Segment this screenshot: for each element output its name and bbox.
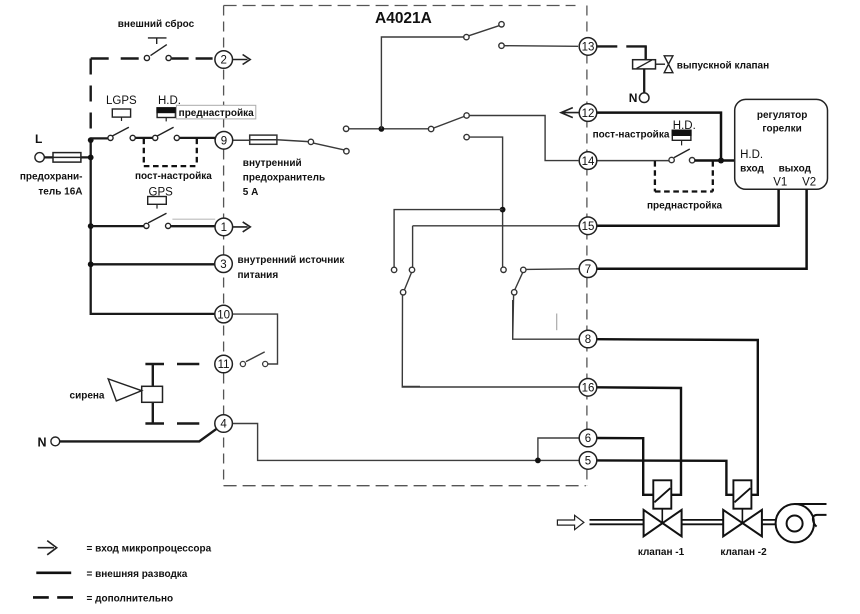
blower outlet duct top bbox=[795, 503, 827, 505]
switch blade LGPS bbox=[112, 127, 129, 136]
wire node up and right to flame switch bbox=[381, 37, 464, 129]
terminal 11 bbox=[215, 355, 233, 373]
junction bus / L fuse bbox=[88, 155, 94, 161]
wire dashed bus vertical optional part bbox=[89, 59, 91, 141]
svg-text:LGPS: LGPS bbox=[106, 95, 137, 107]
terminal N right circle bbox=[639, 93, 649, 103]
valve1 stem bbox=[661, 509, 663, 523]
svg-text:11: 11 bbox=[218, 359, 230, 371]
legend solid line symbol bbox=[36, 571, 71, 574]
wire right pair right contact to terminal 7 bbox=[526, 268, 579, 271]
stray gray line above terminal 1 wire bbox=[172, 218, 215, 220]
terminal 8 bbox=[579, 330, 597, 348]
junction bus / reset row bbox=[88, 137, 94, 143]
A4021A dashed enclosure bottom border bbox=[224, 485, 586, 487]
svg-text:предохрани-: предохрани- bbox=[20, 172, 83, 183]
wire left pair common down to terminal 16 bbox=[402, 295, 579, 387]
svg-text:12: 12 bbox=[582, 108, 595, 120]
svg-text:выход: выход bbox=[779, 164, 812, 175]
valve2 body (bowtie) bbox=[723, 510, 742, 536]
svg-text:сирена: сирена bbox=[70, 391, 105, 402]
LGPS sensor box bbox=[112, 109, 130, 117]
svg-text:L: L bbox=[35, 132, 42, 146]
svg-text:3: 3 bbox=[220, 259, 226, 271]
arrow output terminal 12 bbox=[561, 108, 579, 118]
contact circle reset left bbox=[144, 55, 149, 60]
switch blade 11 bbox=[246, 352, 265, 362]
legend dashed line symbol bbox=[33, 596, 73, 599]
terminal 2 bbox=[215, 51, 233, 69]
H.D. box tie bbox=[165, 118, 167, 122]
left pair blade (closed) bbox=[404, 273, 411, 291]
svg-text:14: 14 bbox=[582, 156, 595, 168]
wire terminal 14 to H.D. switch bbox=[597, 160, 669, 162]
wire terminal 6 stub and junction to 5 row bbox=[538, 438, 579, 460]
wire GPS row from bus bbox=[91, 225, 144, 227]
terminal N circle bbox=[51, 437, 60, 446]
GPS sensor box bbox=[148, 197, 167, 205]
valve2 stem bbox=[741, 509, 743, 523]
contact circles left pair bbox=[391, 267, 396, 272]
junction bus / GPS row bbox=[88, 223, 94, 229]
wire right pair common down to terminal 8 bbox=[513, 295, 580, 340]
gas pipe double line bbox=[590, 520, 777, 524]
terminal 7 bbox=[579, 260, 597, 278]
wire fuse to internal switch bbox=[277, 140, 309, 142]
switch blade H.D. bbox=[157, 127, 173, 136]
wire terminal 3 row bbox=[91, 263, 215, 265]
terminal 1 bbox=[215, 218, 233, 236]
wire between LGPS and HD switches bbox=[135, 137, 153, 139]
A4021A dashed enclosure left border (terminal column line) bbox=[223, 6, 225, 486]
terminal L circle bbox=[35, 153, 44, 162]
wire dashed from bus corner to reset switch bbox=[91, 57, 144, 59]
wire coil to valve symbol bbox=[656, 63, 666, 65]
svg-text:клапан -1: клапан -1 bbox=[638, 547, 685, 558]
wire terminal 8 to valve2 coil right bbox=[597, 339, 758, 495]
valve1 coil box bbox=[653, 480, 671, 508]
terminal 6 bbox=[579, 429, 597, 447]
svg-text:V2: V2 bbox=[802, 176, 816, 188]
wire N to terminal 4 bbox=[60, 429, 217, 442]
svg-text:5 А: 5 А bbox=[243, 187, 259, 198]
svg-text:пост-настройка: пост-настройка bbox=[593, 130, 670, 141]
blower outer circle bbox=[776, 504, 814, 542]
wire terminal 12 to regulator input bbox=[597, 113, 721, 161]
internal fuse 5A body bbox=[250, 135, 277, 144]
wire terminal 5 to valve2 coil left bbox=[597, 460, 734, 494]
blower outlet duct bottom with volute hook bbox=[813, 515, 827, 527]
switch blade top (open, to 13) bbox=[469, 26, 500, 36]
svg-text:5: 5 bbox=[585, 456, 591, 468]
contact circles switch 11 bbox=[240, 361, 245, 366]
wire top switch to terminal 13 bbox=[504, 45, 578, 48]
svg-text:внутренний: внутренний bbox=[243, 158, 302, 169]
wire terminal 6 to valve1 coil left bbox=[597, 438, 654, 495]
valve2 coil box bbox=[733, 480, 751, 508]
switch blade (external reset) bbox=[151, 45, 167, 56]
wire dashed terminal 13 to exhaust valve coil bbox=[597, 45, 647, 47]
svg-text:преднастройка: преднастройка bbox=[179, 108, 254, 119]
wire H.D. switch to regulator H.D. input bbox=[695, 159, 735, 162]
coil diagonal bbox=[637, 60, 652, 68]
svg-text:= дополнительно: = дополнительно bbox=[87, 593, 174, 604]
terminal 5 bbox=[579, 452, 597, 470]
svg-text:клапан -2: клапан -2 bbox=[720, 547, 767, 558]
switch blade GPS bbox=[148, 213, 166, 223]
terminal 13 bbox=[579, 38, 597, 56]
siren relay box bbox=[142, 386, 163, 402]
pushbutton actuator bar (external reset) bbox=[148, 38, 167, 44]
wire branch to left pair bbox=[394, 210, 503, 268]
H.D. right box tie bbox=[681, 140, 683, 145]
svg-text:N: N bbox=[38, 436, 47, 450]
wire L to bus bbox=[44, 156, 90, 158]
terminal 15 bbox=[579, 217, 597, 235]
dashed bracket преднастройка right bbox=[655, 161, 713, 192]
contact circles top switch bbox=[464, 34, 469, 39]
right pair blade (closed) bbox=[515, 272, 523, 290]
wire dashed from reset switch to terminal 2 bbox=[172, 57, 215, 59]
A4021A dashed enclosure top border bbox=[224, 5, 576, 7]
terminal 10 bbox=[215, 305, 233, 323]
wire H.D. switch to terminal 9 bbox=[179, 138, 215, 139]
svg-text:10: 10 bbox=[217, 309, 230, 321]
svg-text:13: 13 bbox=[582, 42, 595, 54]
svg-text:7: 7 bbox=[585, 264, 591, 276]
H.D. sensor box (half filled) bbox=[157, 108, 175, 118]
svg-text:8: 8 bbox=[585, 334, 591, 346]
wire terminal 15 to regulator V1 bbox=[597, 189, 779, 226]
svg-text:N: N bbox=[629, 91, 638, 105]
svg-text:4: 4 bbox=[220, 419, 227, 431]
contact circles row 9 bbox=[108, 135, 113, 140]
A4021A dashed enclosure right border (net column line) bbox=[586, 6, 588, 486]
wire terminal 4 to 5 row bbox=[233, 424, 538, 461]
label box преднастройка bbox=[176, 105, 255, 119]
wire changeover lower contact down to node bbox=[469, 137, 502, 267]
blower inner circle bbox=[787, 516, 803, 532]
wire coil to N bbox=[643, 69, 645, 93]
svg-text:регулятор: регулятор bbox=[757, 110, 807, 121]
burner regulator box bbox=[735, 99, 828, 189]
svg-text:= вход микропроцессора: = вход микропроцессора bbox=[87, 544, 212, 555]
arrow microprocessor input at 1 bbox=[233, 222, 251, 232]
terminal 4 bbox=[215, 415, 233, 433]
wire terminal 7 to regulator V2 bbox=[597, 189, 807, 268]
fuse 16A body bbox=[53, 153, 81, 163]
stray gray mark bbox=[556, 314, 558, 331]
svg-text:= внешняя разводка: = внешняя разводка bbox=[87, 569, 188, 580]
H.D. box right (half filled) bbox=[672, 130, 691, 140]
svg-text:2: 2 bbox=[220, 55, 226, 67]
contact circles changeover bbox=[428, 126, 433, 131]
terminal 9 bbox=[215, 132, 233, 150]
LGPS box tie bbox=[121, 117, 123, 121]
terminal 16 bbox=[579, 379, 597, 397]
valve1 body (bowtie) bbox=[644, 510, 663, 536]
wire GPS switch to terminal 1 bbox=[170, 225, 215, 227]
contact circles H.D. switch bbox=[669, 157, 674, 162]
dashed bracket пост-настройка left bbox=[144, 139, 197, 167]
wire terminal 15 branch down bbox=[412, 226, 414, 267]
svg-text:питания: питания bbox=[238, 270, 279, 281]
svg-text:преднастройка: преднастройка bbox=[647, 201, 722, 212]
terminal 14 bbox=[579, 152, 597, 170]
junction node x381 bbox=[379, 126, 385, 132]
svg-text:внутренний источник: внутренний источник bbox=[238, 255, 346, 266]
svg-text:выпускной клапан: выпускной клапан bbox=[677, 61, 769, 72]
switch blade internal (open) bbox=[313, 143, 344, 150]
flow arrow hollow bbox=[557, 515, 584, 529]
arrow microprocessor input at 2 bbox=[233, 55, 251, 65]
H.D. switch blade (open) bbox=[674, 149, 690, 158]
svg-text:пост-настройка: пост-настройка bbox=[135, 171, 212, 182]
junction node x502 bbox=[500, 207, 506, 213]
exhaust valve solenoid coil box bbox=[633, 60, 656, 69]
junction node 5/6 bbox=[535, 458, 541, 464]
wire changeover upper to terminal 14 bbox=[469, 116, 578, 161]
wire terminal 9 to internal fuse bbox=[233, 139, 250, 141]
contact circles internal switch bbox=[308, 139, 313, 144]
svg-text:16: 16 bbox=[582, 383, 595, 395]
wire dashed terminal 11 to siren branch bbox=[145, 363, 214, 365]
wire bus vertical solid bbox=[91, 140, 215, 314]
svg-text:6: 6 bbox=[585, 433, 591, 445]
contact circle reset right bbox=[166, 55, 171, 60]
svg-text:вход: вход bbox=[740, 164, 764, 175]
svg-text:горелки: горелки bbox=[762, 124, 801, 135]
svg-text:15: 15 bbox=[582, 221, 595, 233]
wire dashed siren branch to terminal 4 bbox=[145, 422, 214, 424]
svg-text:A4021A: A4021A bbox=[375, 10, 432, 27]
terminal 12 bbox=[579, 104, 597, 122]
wire terminal 10 right branch to switch 11 bbox=[233, 314, 278, 364]
terminal 3 bbox=[215, 255, 233, 273]
wire terminal 16 to valve1 coil right bbox=[597, 387, 681, 495]
svg-text:тель 16А: тель 16А bbox=[38, 186, 82, 197]
junction bus / row 3 bbox=[88, 261, 94, 267]
legend arrow symbol bbox=[38, 541, 57, 555]
svg-text:внешний сброс: внешний сброс bbox=[118, 18, 195, 30]
wire row 9 from bus bbox=[91, 137, 109, 139]
valve2 coil diagonal bbox=[735, 488, 751, 502]
junction node regulator input bbox=[718, 158, 724, 164]
svg-text:предохранитель: предохранитель bbox=[243, 173, 325, 184]
wire from upper contact to node bbox=[349, 128, 429, 130]
contact circles right pair bbox=[501, 267, 506, 272]
exhaust valve symbol (vertical bowtie) bbox=[664, 56, 673, 73]
wire terminal 15 left bbox=[413, 225, 580, 227]
svg-text:H.D.: H.D. bbox=[740, 149, 763, 161]
valve1 coil diagonal bbox=[654, 488, 670, 502]
svg-text:1: 1 bbox=[221, 222, 227, 234]
svg-text:V1: V1 bbox=[773, 176, 787, 188]
wire to terminal 5 bbox=[538, 459, 579, 461]
svg-text:9: 9 bbox=[221, 136, 227, 148]
siren horn bbox=[108, 379, 142, 401]
siren branch vertical bbox=[152, 364, 154, 424]
changeover blade to 14 (closed) bbox=[431, 116, 467, 130]
GPS box tie bbox=[156, 204, 158, 208]
contact circles GPS row bbox=[144, 223, 149, 228]
